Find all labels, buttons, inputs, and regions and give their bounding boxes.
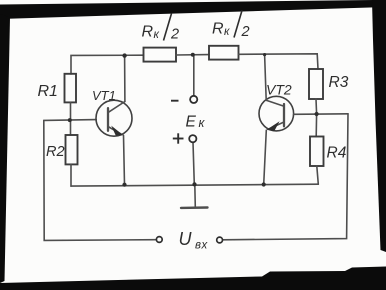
svg-text:к: к	[224, 26, 230, 38]
resistor Rk/2 (left)	[144, 48, 177, 62]
wire: VT1 collector lead	[124, 56, 126, 102]
wire: Ek top drop	[193, 55, 195, 96]
ground bar	[181, 206, 208, 209]
junction dot: VT2 collector on rail	[263, 53, 266, 56]
minus sign	[171, 100, 179, 102]
svg-text:к: к	[154, 29, 160, 41]
wire: VT1 emitter lead	[124, 135, 125, 184]
svg-text:VT1: VT1	[92, 88, 116, 103]
transistor VT2	[259, 96, 294, 131]
terminal: Ek plus	[189, 135, 196, 142]
ground stem	[194, 184, 197, 207]
terminal: Uin left	[156, 237, 162, 243]
wire: R3 bottom lead	[315, 99, 318, 114]
wire: left base wire	[44, 119, 96, 122]
label Uin	[179, 229, 209, 252]
wire: R4 bottom lead	[317, 166, 319, 184]
svg-text:2: 2	[241, 24, 250, 40]
label Ek	[186, 114, 206, 131]
junction dot: Ek tap on rail	[191, 53, 195, 57]
junction dot: center on rail	[192, 182, 196, 186]
terminal: Uin right	[217, 237, 223, 243]
wire: right input loop	[223, 114, 349, 240]
resistor R2	[66, 135, 78, 164]
svg-text:R3: R3	[329, 74, 349, 91]
wire: VT2 base to right rail	[294, 113, 348, 116]
transistor VT1	[96, 100, 132, 136]
svg-text:E: E	[186, 114, 197, 131]
junction dot: VT1 collector on rail	[122, 53, 126, 57]
svg-text:R: R	[142, 24, 154, 41]
label Rk/2 left	[142, 14, 180, 43]
resistor R1	[65, 74, 77, 103]
VT2 emitter arrow	[267, 121, 280, 131]
wire: R1 to R2	[70, 102, 72, 135]
svg-text:R1: R1	[38, 83, 58, 100]
svg-text:R4: R4	[327, 145, 347, 162]
label Rk/2 right	[212, 11, 250, 41]
svg-text:R2: R2	[46, 144, 65, 160]
junction dot: base left	[68, 118, 72, 122]
wire: top rail right segment	[239, 54, 319, 69]
wire: VT2 emitter lead	[264, 130, 267, 184]
plus sign	[173, 133, 184, 143]
junction dot: R3 R4 VT2 base	[315, 112, 319, 116]
wire: R2 bottom to emitter rail	[70, 164, 72, 186]
terminal: Ek minus	[190, 96, 197, 103]
junction dot: VT2 emitter on rail	[262, 182, 266, 186]
wire: top rail left segment	[71, 55, 144, 74]
resistor R3	[309, 69, 323, 99]
svg-text:VT2: VT2	[266, 82, 292, 98]
svg-text:R: R	[212, 21, 224, 38]
wire: Ek bottom drop	[193, 142, 194, 184]
resistor Rk/2 (right)	[209, 46, 239, 60]
wire: top rail middle segment	[176, 54, 209, 56]
wire: left input loop	[44, 120, 157, 240]
svg-text:вх: вх	[195, 240, 209, 252]
svg-text:2: 2	[170, 27, 179, 43]
VT1 emitter arrow	[111, 126, 123, 136]
junction dot: VT1 emitter on rail	[122, 183, 126, 187]
svg-text:U: U	[179, 229, 193, 249]
wire: emitter rail	[71, 184, 318, 186]
wire: VT2 collector lead	[265, 55, 267, 101]
resistor R4	[310, 137, 324, 167]
wire: R3R4 junction down	[315, 114, 317, 137]
